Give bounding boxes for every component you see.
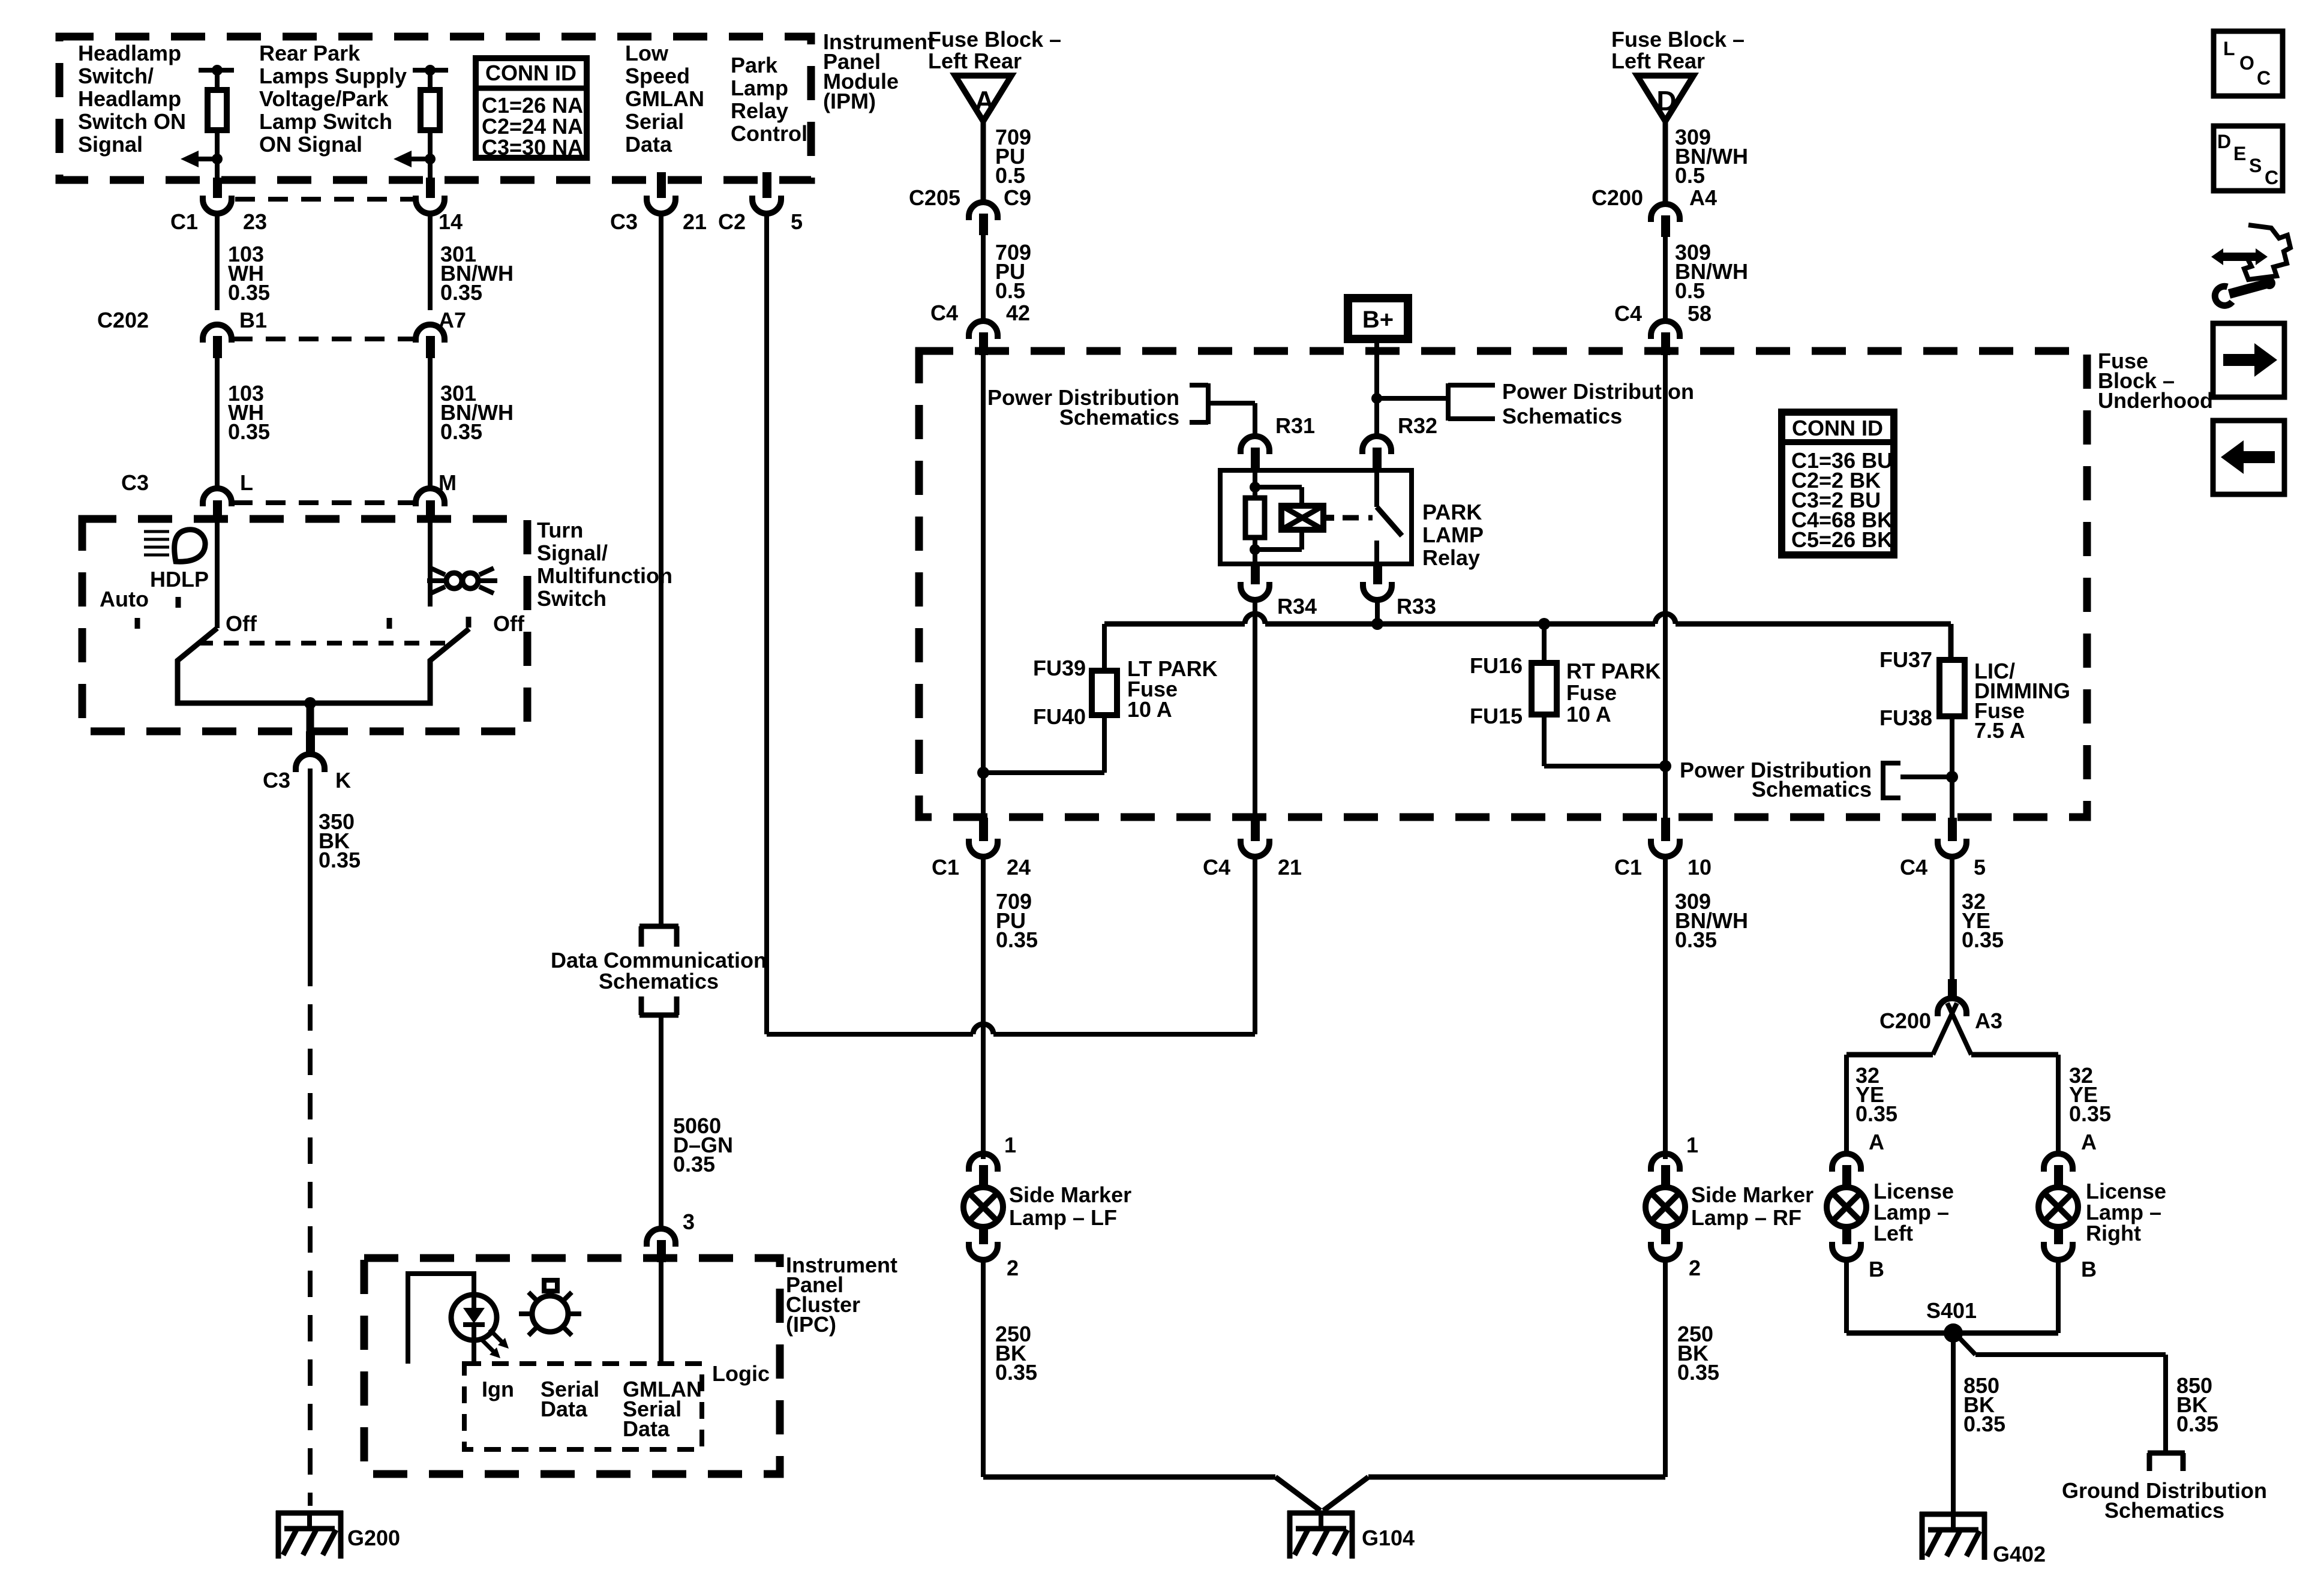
connector side marker RF pin 1 terminal blade [1661,1165,1670,1188]
connector side marker LF pin 2 socket [969,1242,998,1260]
svg-text:Headlamp: Headlamp [78,86,181,111]
ground G104 [1287,1511,1355,1516]
connector license Left pin B terminal blade [1842,1226,1851,1244]
park lamp icon rays [431,568,445,575]
connector C1 pin 24 socket [969,839,998,857]
bus wire from relay R33 [1104,622,1245,627]
connector dashed link C202 [233,337,415,341]
wire 309 BN/WH to lamp [1663,857,1668,1159]
connector license Right pin A terminal blade [2054,1165,2063,1188]
svg-text:Low: Low [625,41,669,65]
wire 301 BN/WH (upper) [428,214,433,310]
wire S401 to ground distribution [1959,1338,1975,1355]
LED diode symbol [463,1308,485,1323]
svg-text:Side Marker: Side Marker [1009,1182,1131,1207]
switch coupling dashed link [198,641,451,646]
svg-text:0.5: 0.5 [1675,278,1705,303]
svg-text:A: A [2081,1130,2097,1154]
svg-text:Schematics: Schematics [2104,1498,2224,1523]
connector C2 pin 5 terminal blade [762,172,771,198]
connector IPC pin 3 socket [647,1229,675,1247]
svg-text:L: L [240,470,253,495]
svg-text:Lamps Supply: Lamps Supply [259,64,407,88]
connector C4 pin 58 socket [1651,321,1680,339]
off-page bracket Data Communication (top) [639,924,678,929]
lamp License Lamp - Right [2038,1187,2078,1227]
svg-text:FU15: FU15 [1470,704,1523,728]
connector C4 pin 21 socket [1241,839,1269,857]
svg-text:C4: C4 [1900,855,1927,879]
svg-text:Right: Right [2086,1221,2141,1245]
module box Instrument Panel Cluster (IPC) [364,1258,780,1474]
junction node FU16 on bus [1538,618,1550,630]
wire 5060 D-GN lower [659,1015,663,1230]
wire FU38 down [1950,716,1954,818]
svg-text:Power Distribution: Power Distribution [1502,379,1694,404]
connector C200 pin A4 socket [1651,204,1680,222]
relay switch blade (open) [1377,507,1402,536]
svg-text:Schematics: Schematics [1502,404,1622,428]
fuse FU39/FU40 LT PARK [1092,671,1117,715]
wire R33 to bus [1375,600,1380,624]
wire LED to Ign [408,1274,474,1364]
svg-text:K: K [335,768,351,792]
junction node switch common [304,697,316,709]
svg-text:PARK: PARK [1422,500,1482,524]
svg-text:14: 14 [439,209,463,234]
svg-text:A7: A7 [439,308,466,332]
ground G200 [276,1511,343,1516]
wire license Right down [2056,1260,2061,1333]
svg-text:0.35: 0.35 [228,280,270,305]
svg-text:Lamp – LF: Lamp – LF [1009,1205,1117,1230]
connector side marker LF pin 1 terminal blade [979,1165,988,1188]
wire from left bracket to R31 [1208,401,1255,406]
wire FU15 to 309 feed [1544,764,1665,769]
svg-text:C: C [2265,167,2278,188]
connector C1 pin 14 terminal blade [426,178,435,198]
wire FU15 down [1542,715,1547,766]
switch position tick Auto [135,618,140,629]
bulb icon [532,1296,568,1332]
svg-text:C1: C1 [170,209,198,234]
wire into switch (left) [215,521,220,628]
svg-text:D: D [1656,85,1676,116]
connector C1 pin 24 terminal blade [979,818,988,841]
svg-text:C4: C4 [930,301,958,325]
svg-text:1: 1 [1686,1133,1698,1157]
svg-text:C4: C4 [1614,301,1642,326]
svg-text:R34: R34 [1277,594,1317,619]
svg-text:0.5: 0.5 [995,278,1025,303]
svg-text:Rear Park: Rear Park [259,41,361,65]
svg-text:B+: B+ [1362,307,1394,333]
connector C4 pin 42 socket [969,321,998,339]
connector license Right pin B socket [2044,1242,2073,1260]
junction node coil bottom [1250,544,1260,555]
connector C1 pin 14 socket [416,196,445,214]
connector R32 socket [1362,436,1391,454]
svg-text:0.35: 0.35 [2069,1101,2111,1126]
connector side marker RF pin 2 terminal blade [1661,1226,1670,1244]
connector C205 pin C9 terminal blade [979,214,988,235]
connector R32 terminal blade [1373,448,1382,473]
svg-text:2: 2 [1007,1256,1019,1280]
wire 1080 WH run [764,214,769,1034]
relay switch common [1374,470,1379,507]
svg-text:1: 1 [1004,1133,1016,1157]
bus drop to FU16 [1542,624,1547,663]
svg-text:C3: C3 [263,768,290,792]
svg-text:C3: C3 [610,209,638,234]
svg-text:B: B [1869,1257,1884,1281]
svg-text:Off: Off [226,611,257,636]
relay switch output terminal [1374,541,1379,564]
wire C4 21 down [1253,857,1257,1034]
ground G402 [1920,1512,1987,1517]
svg-text:42: 42 [1006,301,1030,325]
connector C3 pin 21 socket [647,196,675,214]
connector C1 pin 10 terminal blade [1661,818,1670,841]
svg-text:A: A [1869,1130,1884,1154]
connector dashed link C3 [233,500,415,505]
wire RF to G104 [1368,1475,1665,1480]
svg-text:Schematics: Schematics [599,969,719,993]
connector C202 pin B1 terminal blade [213,336,222,358]
svg-text:S401: S401 [1926,1298,1977,1323]
module box Turn Signal/Multifunction Switch [82,519,527,731]
svg-text:CONN ID: CONN ID [485,61,577,85]
svg-text:5: 5 [791,209,803,234]
connector R33 socket [1363,582,1392,600]
svg-text:0.5: 0.5 [995,163,1025,188]
connector C2 pin 5 socket [752,196,781,214]
svg-text:Lamp – RF: Lamp – RF [1691,1205,1801,1230]
svg-text:A: A [974,85,994,116]
bus hop over 309 BN/WH wire [1655,614,1676,624]
icon box DESC [2214,126,2283,191]
svg-text:Serial: Serial [625,109,684,134]
relay solenoid coil [1281,506,1323,530]
svg-text:Auto: Auto [100,587,149,611]
svg-text:24: 24 [1007,855,1031,879]
svg-text:21: 21 [683,209,707,234]
svg-text:Lamp Switch: Lamp Switch [259,109,392,134]
connector C3 pin M terminal blade [426,500,435,521]
power feed B+ box [1348,298,1408,339]
svg-text:ON Signal: ON Signal [259,132,362,157]
connector C202 pin A7 socket [416,325,445,343]
svg-text:C1: C1 [1614,855,1642,879]
svg-text:C3: C3 [121,470,149,495]
CONN ID table (underhood) [1782,412,1894,555]
svg-text:S: S [2249,155,2262,176]
svg-text:Signal: Signal [78,132,143,157]
svg-text:0.35: 0.35 [1963,1412,2005,1436]
wire 309 BN/WH [1663,237,1668,321]
svg-text:Relay: Relay [1422,545,1480,570]
connector C4 pin 5 terminal blade [1948,818,1957,841]
svg-text:10: 10 [1688,855,1712,879]
svg-text:R33: R33 [1397,594,1436,619]
svg-text:C205: C205 [909,185,960,210]
bus corner to FU37 [1948,624,1954,660]
svg-text:5: 5 [1974,855,1986,879]
wire 350 BK [308,769,313,960]
switch output stub [307,703,314,731]
junction node B+ branch [1371,393,1382,404]
icon box LOC [2214,31,2283,96]
junction node on bus (IPM output 14) [425,65,436,76]
svg-text:0.35: 0.35 [440,280,482,305]
wire [215,70,220,90]
svg-text:0.35: 0.35 [996,927,1038,952]
connector C3 pin L terminal blade [213,500,222,521]
wire into switch (right) [428,521,433,607]
svg-text:B: B [2081,1257,2097,1281]
svg-text:D: D [2217,131,2231,152]
svg-text:CONN ID: CONN ID [1792,416,1883,440]
svg-text:FU16: FU16 [1470,653,1523,678]
wire [215,130,220,180]
wire 350 BK dashed run to G200 [308,960,313,1506]
CONN ID table (IPM) [476,58,587,158]
wire LF to G104 [983,1475,1275,1480]
wire from triangle D [1663,121,1668,204]
switch position tick (right Off) [466,617,472,628]
svg-text:2: 2 [1689,1256,1701,1280]
off-page bracket Data Communication (bottom) [639,1013,678,1018]
wire 309 BN/WH through fuse block [1663,355,1668,818]
wire 5060 D-GN upper [659,214,663,926]
connector license Right pin A socket [2044,1154,2073,1172]
connector C200 pin A3 terminal blade [1948,979,1957,998]
wire [428,130,433,180]
wire R34 to C4 21 [1253,600,1257,818]
connector IPC pin 3 terminal blade [657,1240,666,1262]
svg-text:Switch ON: Switch ON [78,109,186,134]
connector C3 pin L socket [203,488,232,506]
svg-text:RT PARK: RT PARK [1566,659,1661,683]
svg-text:G104: G104 [1362,1526,1415,1550]
svg-text:Fuse: Fuse [1566,680,1617,705]
svg-text:Schematics: Schematics [1059,405,1179,430]
junction node FU38 branch [1946,771,1958,783]
off-page bracket Ground Distribution [2148,1451,2185,1456]
park lamp icon circles [446,573,462,589]
svg-text:C200: C200 [1879,1008,1931,1033]
fuse FU37/FU38 LIC/DIMMING [1939,660,1965,716]
svg-text:G402: G402 [1993,1542,2046,1566]
off-page bracket Power Distribution (left) [1206,383,1211,424]
junction node on 309 feed [1659,760,1671,772]
lamp Side Marker Lamp - RF [1646,1187,1685,1227]
connector R31 socket [1241,436,1269,454]
svg-text:10 A: 10 A [1127,697,1172,722]
svg-text:R31: R31 [1275,413,1315,438]
icon box right arrow [2213,323,2284,397]
splice V wires at C200 A3 [1933,1003,1957,1055]
svg-text:Underhood: Underhood [2098,388,2213,413]
wire 301 BN/WH (lower) [428,358,433,488]
connector C3 pin K socket [296,754,325,772]
connector C3 pin M socket [416,488,445,506]
switch position tick (right mid) [387,618,392,629]
svg-text:C4: C4 [1203,855,1230,879]
off-page bracket Power Distribution (right) [1446,383,1451,421]
svg-text:10 A: 10 A [1566,702,1611,727]
svg-text:Logic: Logic [712,1361,770,1386]
svg-text:Left: Left [1873,1221,1913,1245]
svg-text:HDLP: HDLP [150,567,209,592]
resistor (IPM driver, headlamp switch signal) [208,90,227,130]
connector R33 terminal blade [1373,564,1382,584]
connector C1 pin 10 socket [1651,839,1680,857]
svg-text:FU40: FU40 [1033,704,1086,729]
relay actuator dashed linkage [1343,515,1373,521]
resistor relay coil suppression [1245,498,1265,538]
coil parallel branch bottom [1255,547,1302,552]
connector C3 pin K terminal blade [306,731,315,753]
svg-text:23: 23 [243,209,267,234]
connector C4 pin 21 terminal blade [1251,818,1260,841]
connector side marker LF pin 1 socket [969,1154,998,1172]
svg-text:B1: B1 [239,308,267,332]
connector C3 pin 21 terminal blade [657,172,666,198]
svg-text:Headlamp: Headlamp [78,41,181,65]
wire 709 PU to lamp [981,857,986,1159]
wire from triangle A [981,121,986,202]
svg-text:0.35: 0.35 [1855,1101,1897,1126]
connector side marker LF pin 2 terminal blade [979,1226,988,1244]
svg-text:0.35: 0.35 [995,1360,1037,1385]
svg-text:Turn: Turn [537,518,583,542]
wire [428,70,433,90]
svg-text:Schematics: Schematics [1752,777,1872,801]
wire from B+ [1374,339,1379,436]
svg-text:C2: C2 [718,209,746,234]
svg-text:Control: Control [731,121,807,146]
svg-text:58: 58 [1688,301,1712,326]
connector C4 pin 58 terminal blade [1661,332,1670,355]
wire 709 PU [981,235,986,321]
connector R34 socket [1241,582,1269,600]
connector R31 terminal blade [1251,448,1260,473]
svg-text:Relay: Relay [731,98,788,123]
svg-text:21: 21 [1278,855,1302,879]
switch position tick HDLP [176,597,181,608]
bus hop over R34 wire [1245,614,1265,624]
junction node on bus (IPM output 23) [212,65,223,76]
wire to license left [1846,1052,1933,1058]
connector license Left pin A socket [1832,1154,1861,1172]
LED emission arrows [490,1329,505,1345]
wire 250 BK (LF) [981,1260,986,1477]
connector C205 pin C9 socket [969,202,998,220]
connector side marker RF pin 2 socket [1651,1242,1680,1260]
fuse FU16/FU15 RT PARK [1532,663,1557,715]
internal bus bar (IPM output 23) [199,68,234,73]
connector license Left pin A terminal blade [1842,1165,1851,1188]
wire coil feed [1253,473,1257,498]
wire [1253,538,1257,564]
svg-text:C: C [2257,67,2271,89]
connector dashed link C1 row [235,197,413,202]
svg-text:Data: Data [623,1416,670,1441]
svg-text:0.35: 0.35 [228,419,270,444]
connector side marker RF pin 1 socket [1651,1154,1680,1172]
wire license bus [1846,1331,2058,1336]
svg-text:Ign: Ign [482,1377,514,1401]
svg-text:A3: A3 [1975,1008,2002,1033]
module box Fuse Block - Underhood [919,351,2087,817]
headlamp icon lamp outline [175,530,205,562]
connector C1 pin 23 socket [203,196,232,214]
icon wrench outline shape [2244,225,2290,280]
svg-text:C9: C9 [1004,185,1031,210]
svg-text:0.35: 0.35 [673,1152,715,1176]
svg-text:G200: G200 [347,1526,400,1550]
svg-text:FU39: FU39 [1033,656,1086,680]
connector license Left pin B socket [1832,1242,1861,1260]
wire 103 WH (upper) [215,214,220,310]
svg-text:M: M [439,470,457,495]
connector C202 pin A7 terminal blade [426,336,435,358]
coil parallel branch top [1255,485,1302,490]
svg-text:Left Rear: Left Rear [1611,49,1705,73]
wire S401 to G402 [1951,1333,1956,1512]
junction node R33 on bus [1371,618,1383,630]
wire 32 YE down [1950,857,1954,979]
icon wrench double arrow [2221,253,2258,261]
svg-text:C202: C202 [97,308,149,332]
junction node at arrow [425,154,436,164]
lamp Side Marker Lamp - LF [963,1187,1003,1227]
svg-text:Fuse Block –: Fuse Block – [928,27,1061,52]
svg-text:0.35: 0.35 [319,848,361,872]
svg-text:Left Rear: Left Rear [928,49,1022,73]
connector C202 pin B1 socket [203,325,232,343]
svg-text:Switch: Switch [537,586,606,611]
relay box PARK LAMP Relay [1220,470,1412,564]
off-page triangle A [955,76,1011,121]
svg-text:Switch/: Switch/ [78,64,154,88]
wire into IPC [659,1262,663,1364]
splice S401 [1944,1323,1963,1343]
svg-text:0.35: 0.35 [1962,927,2004,952]
svg-text:C1: C1 [932,855,959,879]
svg-text:(IPM): (IPM) [823,89,876,113]
svg-text:0.5: 0.5 [1675,163,1705,188]
lamp License Lamp - Left [1827,1187,1866,1227]
svg-text:0.35: 0.35 [2176,1412,2218,1436]
icon box left arrow [2213,421,2284,494]
svg-text:Fuse Block –: Fuse Block – [1611,27,1744,52]
headlamp icon rays [144,530,169,533]
icon wrench tool [2229,284,2266,294]
wire 103 WH (lower) [215,358,220,488]
wire 250 BK (RF) [1663,1260,1668,1477]
arrow (signal direction, rear park lamps supply) [411,157,430,161]
connector C4 pin 42 terminal blade [979,332,988,355]
svg-text:L: L [2223,38,2235,59]
svg-text:Park: Park [731,53,778,77]
bus drop to FU39 [1102,624,1107,671]
svg-text:Signal/: Signal/ [537,541,608,565]
connector C4 pin 5 socket [1938,839,1966,857]
svg-text:C200: C200 [1592,185,1643,210]
svg-text:Data: Data [541,1397,588,1421]
